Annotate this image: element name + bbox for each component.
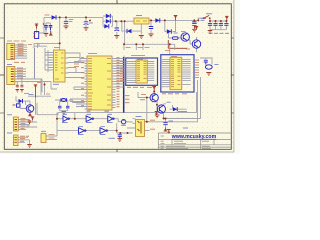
power port left mid down	[34, 85, 38, 98]
MCU U1 left pin stubs	[85, 59, 88, 110]
ground C11	[44, 34, 49, 37]
connector J2	[7, 67, 15, 85]
LED D9	[121, 120, 125, 124]
label rect2 right pin names	[195, 60, 199, 78]
sheet outer border right	[233, 0, 235, 152]
ground Q4	[155, 115, 160, 118]
label U6C	[107, 114, 113, 122]
wire left mid	[16, 79, 51, 115]
wire input caps	[46, 23, 51, 34]
label U6D	[78, 127, 84, 135]
label U6B	[86, 114, 92, 122]
capacitor conn C	[28, 121, 31, 124]
capacitor left mid b	[20, 85, 23, 87]
label conn A wire names	[18, 44, 33, 55]
power port left arrow	[28, 112, 32, 116]
diode D4	[104, 24, 109, 28]
capacitor C14	[118, 135, 122, 138]
ground C1	[64, 26, 69, 29]
zone tick top	[116, 0, 118, 4]
connector J5 power jack	[34, 32, 39, 39]
capacitor C13	[192, 22, 196, 29]
title row size number revision	[161, 141, 210, 143]
label U6E	[100, 127, 106, 135]
label U3	[136, 15, 142, 17]
wire reset gnd red	[168, 40, 187, 48]
relay box K1	[13, 104, 21, 107]
zone tick bottom	[116, 149, 118, 152]
power port title arrow	[167, 130, 171, 134]
ground crystal	[61, 112, 66, 115]
diode D7	[167, 29, 172, 33]
wire conn A labels	[15, 45, 28, 58]
wire gates row2	[57, 123, 117, 130]
power port opto	[155, 112, 159, 115]
diode D10	[19, 99, 23, 103]
power port VCC regulator out	[174, 16, 178, 21]
page bottom edge	[0, 152, 240, 154]
label conn B wire names	[17, 68, 23, 78]
gate U6A	[63, 116, 69, 122]
ground C14	[117, 139, 122, 142]
transistor Q1	[181, 33, 189, 41]
ground C2	[84, 28, 89, 31]
label J2	[7, 64, 12, 66]
wire rect1 top stub	[124, 56, 145, 58]
wire mcu left pins ext	[70, 59, 85, 107]
diode D3	[106, 19, 111, 23]
cap value labels	[209, 32, 230, 34]
zone tick left	[0, 74, 4, 76]
label C1	[69, 20, 74, 22]
wire regulator output rail	[149, 18, 210, 33]
zone tick right upper	[231, 37, 234, 39]
wire led opto	[114, 119, 132, 122]
electrolytic capacitor C12	[49, 26, 53, 31]
U5 left pins	[161, 59, 170, 86]
label C14	[109, 137, 116, 139]
wire conn D rows	[18, 137, 30, 144]
sheet background	[0, 0, 240, 154]
label C15	[169, 120, 174, 122]
wire reset transistors	[169, 33, 197, 52]
MCU U1 right pin names	[107, 59, 111, 106]
wire diode bridge links	[103, 16, 134, 26]
wire gates row1	[57, 113, 108, 131]
U4 left pins	[126, 62, 136, 83]
title label Title	[161, 135, 165, 137]
label below rect2	[162, 93, 187, 95]
wire cap C1 stub	[65, 17, 67, 26]
title row file drawn	[161, 147, 212, 149]
MCU U1 left pin names	[88, 59, 93, 110]
wire conn C rows	[18, 120, 37, 130]
power port C15 arrow	[164, 128, 168, 132]
label U2	[54, 47, 60, 49]
page right edge	[234, 0, 240, 154]
wire opto bottom	[117, 131, 133, 135]
wire power input rail	[37, 17, 104, 33]
label U5	[171, 55, 177, 57]
power port VCC mid	[152, 87, 156, 92]
zone tick right lower	[231, 112, 234, 114]
capacitor left mid a	[16, 85, 19, 87]
connector J4	[14, 135, 19, 146]
wire crystal mcu	[51, 82, 85, 112]
label wires left of U1	[74, 62, 79, 67]
label Q1	[181, 31, 186, 33]
label Q3 net blue	[140, 99, 145, 101]
regulator U3 7805	[134, 18, 149, 24]
wire opto conn	[127, 119, 166, 131]
label Q2	[186, 48, 190, 50]
power port Q2 top	[195, 26, 199, 29]
label U4	[137, 58, 143, 60]
capacitor C10	[66, 106, 70, 108]
ground regulator	[139, 36, 144, 39]
diode D2	[106, 14, 111, 18]
connector J1	[7, 44, 15, 60]
capacitor C4	[149, 27, 153, 29]
crystal Y2	[61, 98, 67, 101]
ground Y1	[206, 73, 211, 76]
U5 pin names	[171, 59, 181, 86]
wire staircase to U2	[34, 17, 60, 72]
label near title arrow	[183, 127, 188, 129]
ground C3	[114, 36, 119, 39]
wire cap C2 stub	[85, 17, 87, 27]
label Q4 collector net	[167, 101, 171, 103]
diode D5 bypass	[127, 29, 132, 33]
zone tick left upper	[0, 37, 4, 39]
U5 right pins	[182, 59, 191, 84]
buzzer LS1	[41, 134, 46, 143]
wire bottom rail	[37, 92, 197, 120]
capacitor C15	[163, 123, 167, 125]
title block frame	[159, 133, 232, 149]
power port conn C	[31, 117, 34, 120]
label below rect1	[127, 86, 152, 88]
U4 pin names	[137, 62, 147, 81]
grid dots	[2, 2, 236, 152]
label U1	[88, 53, 97, 55]
label U8	[136, 116, 142, 118]
diode D1	[52, 15, 57, 19]
capacitor C3 polarized	[114, 28, 119, 31]
sheet frame	[4, 4, 231, 150]
title row date sheet	[161, 145, 211, 147]
bus mcu right	[123, 57, 125, 113]
capacitor C9	[58, 106, 62, 108]
wire box E	[46, 131, 57, 140]
wire transistor drive	[138, 92, 187, 122]
MCU U1	[87, 56, 112, 110]
svg-text:www.mcusky.com: www.mcusky.com	[171, 134, 217, 140]
IC U5 DS12887	[170, 57, 182, 89]
power port under C12	[49, 31, 53, 35]
wire regulator gnd pin	[117, 21, 142, 35]
label C2	[89, 22, 93, 24]
gate U6E	[100, 128, 107, 134]
diode D6	[155, 18, 160, 22]
label rect1 left pin names	[120, 62, 124, 81]
sheet outer border bottom	[0, 151, 234, 153]
IC U2 74LS164	[51, 50, 69, 82]
MCU U1 right pin numbers	[117, 58, 120, 107]
ground C4	[149, 34, 154, 37]
label opto outputs	[150, 120, 155, 129]
transistor Q2	[192, 40, 200, 48]
transistor Q4	[157, 105, 165, 113]
label between connectors	[14, 61, 25, 63]
label left mid net	[29, 94, 34, 96]
IC U4 6264	[136, 60, 147, 83]
label J3	[7, 114, 12, 116]
MCU bus stubs	[116, 59, 124, 88]
label xtal left	[87, 110, 110, 112]
wire relay out upper	[164, 77, 201, 119]
label LS1	[41, 130, 46, 132]
label U6A	[62, 114, 68, 122]
optocoupler U8	[136, 120, 145, 137]
diode D8 LED	[173, 107, 177, 111]
section rect RTC	[161, 55, 194, 92]
label D8	[178, 111, 187, 113]
label U2 bottom	[53, 83, 59, 85]
label C13	[201, 18, 207, 20]
label D9	[121, 124, 126, 126]
transistor Q5	[26, 105, 34, 113]
pullup resistor labels top	[126, 48, 171, 51]
crystal Y1 circuit	[200, 58, 212, 70]
zone tick left lower	[0, 112, 4, 114]
power port VBAT arrow	[35, 24, 38, 29]
ground left mid a	[16, 90, 20, 93]
label D1	[45, 14, 50, 16]
resistor R9	[173, 37, 179, 39]
label Y1	[215, 64, 219, 66]
connector J3	[14, 117, 19, 131]
capacitor C7	[219, 24, 223, 26]
junction left mid	[44, 84, 46, 86]
label conn C wire names	[21, 118, 30, 128]
zone tick right	[231, 74, 234, 76]
power port VCC right	[225, 16, 229, 21]
label opto in nets	[121, 120, 126, 122]
capacitor C6	[213, 24, 217, 26]
MCU U1 right pin stubs	[112, 59, 116, 108]
ground conn D	[27, 145, 32, 148]
ground vcc caps	[208, 31, 213, 34]
section rect RAM	[126, 58, 158, 85]
capacitor C1	[64, 21, 68, 23]
bus left column	[34, 48, 36, 79]
label conn D wire names	[20, 136, 29, 141]
ground left mid b	[20, 90, 24, 93]
capacitor C5	[208, 24, 212, 26]
label J4	[7, 132, 12, 134]
MCU U1 left pin numbers	[81, 58, 84, 106]
wire relay out lower	[147, 80, 198, 122]
label box E wires	[49, 135, 55, 139]
gate U6D	[79, 128, 86, 134]
switch S1	[203, 15, 211, 19]
resistor R labels left mid	[24, 83, 50, 95]
wire conn B labels	[15, 69, 51, 92]
wire vcc top rail	[124, 21, 175, 55]
wire vcc cap row	[210, 21, 227, 30]
resistor R10 label	[141, 94, 146, 96]
electrolytic capacitor C11	[43, 23, 48, 30]
capacitor C8	[224, 24, 228, 26]
transistor Q3	[150, 94, 158, 102]
gate U6C	[108, 116, 114, 122]
label bus tail nets	[125, 96, 130, 103]
label D7	[174, 32, 178, 34]
ground C13	[192, 29, 197, 32]
label J1	[7, 40, 26, 42]
wire U2 to MCU	[68, 53, 85, 78]
capacitor C2 polarized	[84, 20, 91, 25]
U4 right pins	[147, 62, 154, 81]
label S1	[206, 13, 212, 15]
gate U6B	[86, 116, 93, 122]
